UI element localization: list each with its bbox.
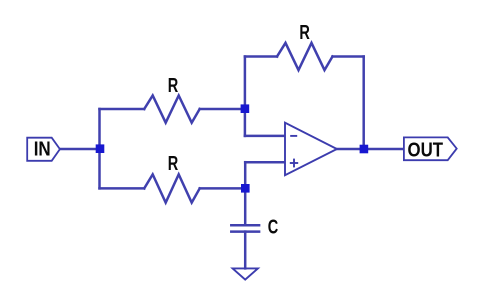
wire node B up to feedback: [244, 57, 247, 110]
resistor R3: [144, 174, 200, 202]
wire feedback down to node D: [362, 57, 365, 150]
wire node C down to capacitor C1: [244, 188, 247, 225]
wire feedback top left to resistor R2: [245, 55, 277, 58]
svg-text:IN: IN: [34, 139, 51, 161]
capacitor C1 bottom plate: [231, 230, 259, 233]
wire node B down toward inverting input: [244, 109, 247, 136]
wire resistor R3 to node C: [200, 187, 246, 190]
node A junction: [96, 144, 105, 153]
op-amp U1 non-inverting pin mark horizontal: [290, 162, 298, 164]
wire node A to resistor R3: [100, 187, 145, 190]
wire node D to OUT port: [364, 148, 404, 151]
wire non-inverting pin down to node C: [244, 162, 247, 188]
op-amp U1 body: [285, 123, 337, 176]
capacitor C1 top plate: [231, 224, 259, 227]
ground: [233, 268, 258, 279]
svg-text:C: C: [268, 217, 279, 239]
op-amp U1 inverting pin mark: [290, 135, 297, 137]
wire IN port to node A: [59, 148, 100, 151]
svg-text:R: R: [168, 153, 179, 175]
wire to op-amp non-inverting pin: [245, 161, 285, 164]
node C junction: [241, 184, 250, 193]
wire resistor R1 to node B: [200, 108, 245, 111]
svg-text:OUT: OUT: [408, 138, 444, 161]
wire vertical through node A: [98, 109, 101, 188]
node D junction: [360, 145, 369, 154]
port IN symbol: [27, 138, 60, 161]
svg-text:R: R: [299, 22, 310, 44]
wire op-amp output to node D: [337, 148, 364, 151]
op-amp U1 non-inverting pin mark vertical: [293, 159, 295, 168]
node B junction: [241, 104, 250, 113]
wire node A to resistor R1: [100, 108, 145, 111]
port OUT symbol: [404, 137, 457, 160]
wire capacitor C1 to ground: [244, 232, 247, 269]
wire to op-amp inverting pin: [245, 135, 285, 138]
svg-text:R: R: [168, 75, 179, 97]
resistor R1: [144, 96, 200, 123]
resistor R2: [277, 43, 333, 70]
wire resistor R2 to feedback corner: [333, 55, 364, 58]
